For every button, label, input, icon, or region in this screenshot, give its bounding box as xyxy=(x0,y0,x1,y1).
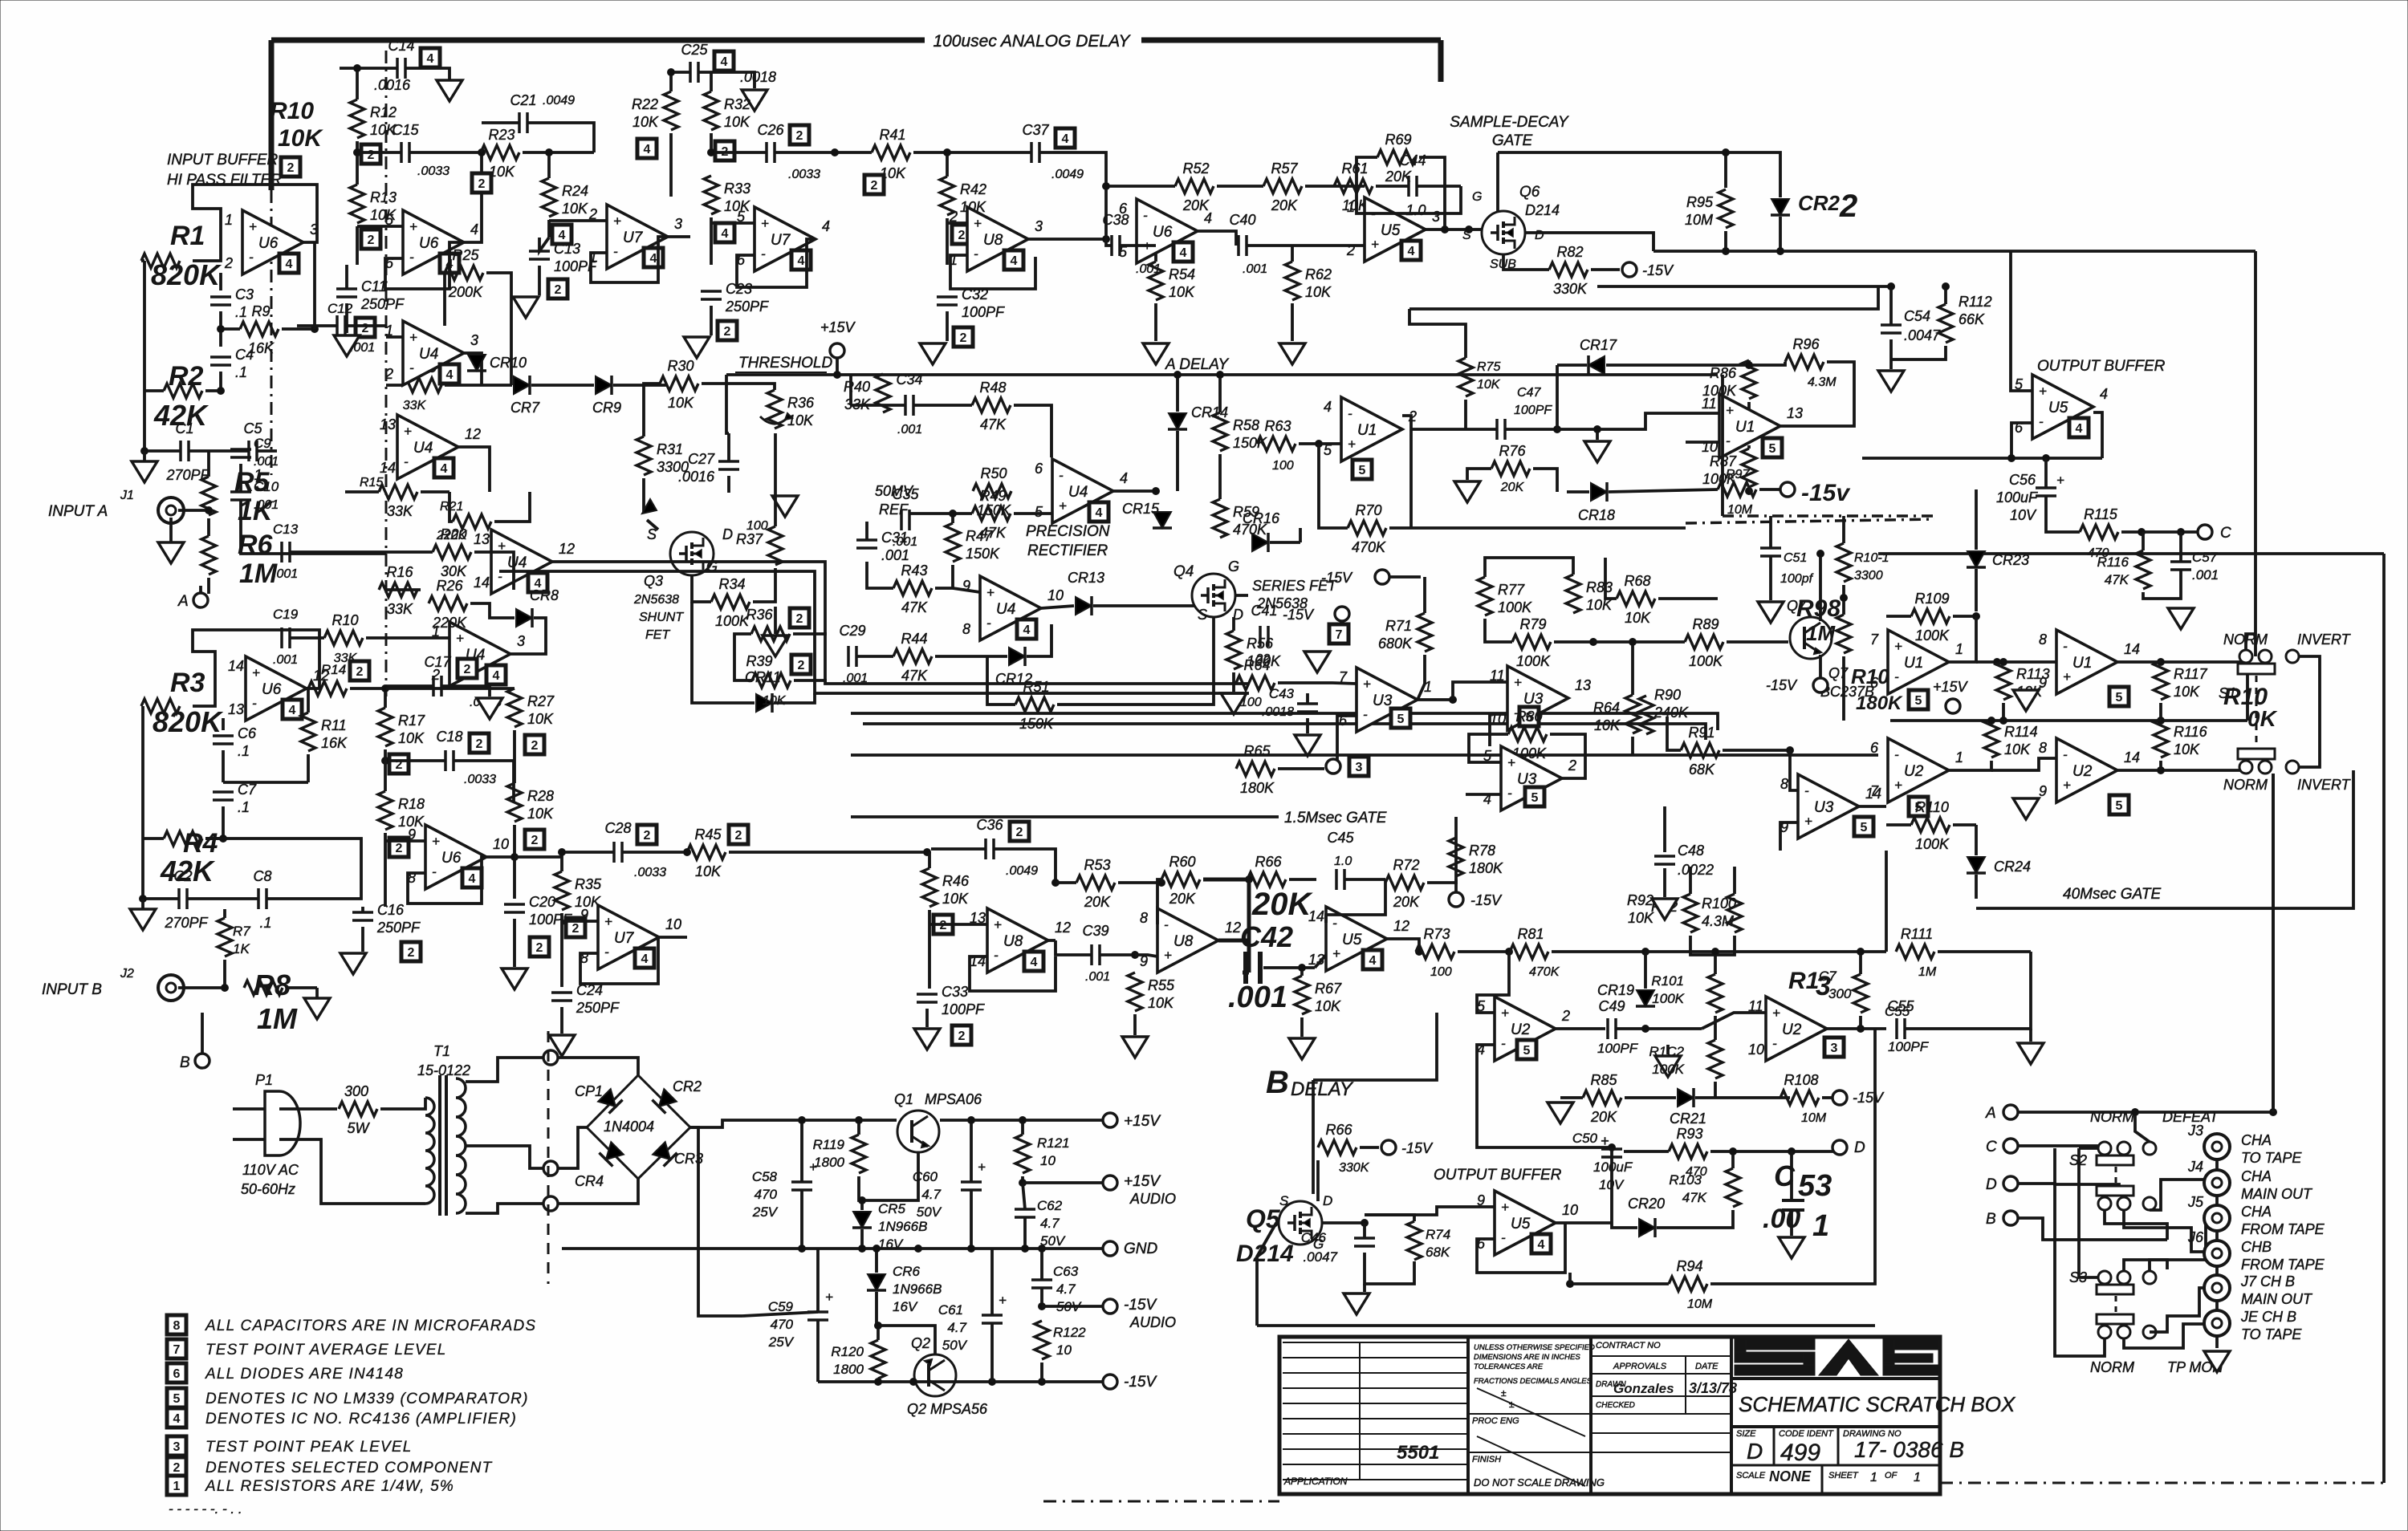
wire xyxy=(2135,1112,2150,1142)
resistor R113 xyxy=(1996,661,2011,700)
svg-text:270PF: 270PF xyxy=(164,915,208,931)
svg-text:C8: C8 xyxy=(253,868,271,884)
svg-text:D: D xyxy=(1323,1193,1332,1208)
svg-text:4.3M: 4.3M xyxy=(1702,913,1734,929)
resistor R82 xyxy=(1549,262,1588,277)
svg-text:C18: C18 xyxy=(436,729,462,745)
svg-text:47K: 47K xyxy=(901,599,928,615)
svg-text:.1: .1 xyxy=(259,915,271,931)
wire xyxy=(925,1009,929,1027)
svg-text:10K: 10K xyxy=(527,711,554,727)
wire xyxy=(513,919,516,967)
svg-text:C54: C54 xyxy=(1904,308,1930,324)
svg-text:4.7: 4.7 xyxy=(947,1320,966,1335)
capacitor C38 xyxy=(1112,235,1120,256)
svg-text:-15V: -15V xyxy=(1853,1090,1885,1106)
wire xyxy=(994,849,1056,883)
revision row xyxy=(1283,1387,1468,1389)
svg-text:DELAY: DELAY xyxy=(1291,1078,1354,1100)
wire xyxy=(1710,1029,1875,1284)
svg-text:GND: GND xyxy=(1124,1241,1158,1257)
svg-text:.001: .001 xyxy=(273,653,298,667)
node xyxy=(311,326,319,333)
svg-text:1: 1 xyxy=(1870,1471,1877,1484)
wire xyxy=(1048,939,1056,942)
svg-text:C39: C39 xyxy=(1082,923,1108,939)
test-point box 8 xyxy=(167,1315,186,1334)
svg-text:R65: R65 xyxy=(1243,743,1271,759)
svg-text:240K: 240K xyxy=(1653,705,1689,721)
svg-text:100PF: 100PF xyxy=(1888,1039,1930,1054)
svg-text:R64: R64 xyxy=(1243,657,1270,673)
wire xyxy=(1886,615,1911,618)
svg-text:+: + xyxy=(249,219,257,234)
svg-text:U7: U7 xyxy=(623,229,644,246)
resistor R13 xyxy=(350,185,364,223)
svg-text:R110: R110 xyxy=(1915,799,1949,815)
svg-text:2: 2 xyxy=(798,659,805,672)
resistor R111 xyxy=(1896,944,1934,959)
wire xyxy=(219,372,222,391)
svg-text:INPUT A: INPUT A xyxy=(48,503,108,520)
capacitor C19 xyxy=(282,627,290,648)
wire xyxy=(800,1120,803,1182)
resistor R15 xyxy=(379,485,417,499)
svg-text:C49: C49 xyxy=(1598,998,1625,1014)
resistor R62 xyxy=(1285,262,1300,300)
svg-text:5: 5 xyxy=(1861,821,1868,835)
wire xyxy=(836,358,839,375)
wire xyxy=(1570,1282,1669,1285)
test-point box 4 xyxy=(715,223,734,242)
svg-text:10K: 10K xyxy=(1169,284,1195,300)
svg-text:OF: OF xyxy=(1885,1471,1898,1480)
svg-text:300: 300 xyxy=(1828,986,1852,1001)
wire xyxy=(482,121,519,124)
svg-text:R17: R17 xyxy=(398,713,425,729)
svg-text:U2: U2 xyxy=(1904,763,1924,780)
wire xyxy=(297,324,337,327)
svg-text:CR5: CR5 xyxy=(878,1201,906,1216)
svg-text:CR19: CR19 xyxy=(1597,982,1634,998)
wire xyxy=(851,815,1279,818)
ground xyxy=(130,909,156,930)
svg-text:U2: U2 xyxy=(1782,1021,1802,1038)
wire xyxy=(141,899,144,909)
jack J1 input A xyxy=(158,497,184,523)
svg-text:100PF: 100PF xyxy=(1514,404,1552,417)
svg-text:OUTPUT BUFFER: OUTPUT BUFFER xyxy=(1434,1167,1562,1184)
wire xyxy=(1300,1017,1304,1037)
wire xyxy=(1014,405,1051,457)
wire xyxy=(205,837,223,840)
test-point box 2 xyxy=(470,733,489,753)
svg-text:C19: C19 xyxy=(273,607,299,622)
svg-text:C60: C60 xyxy=(913,1169,938,1184)
ground xyxy=(763,636,788,656)
svg-text:U1: U1 xyxy=(2072,655,2092,672)
terminal -15V xyxy=(1780,482,1795,497)
wire xyxy=(710,306,713,335)
resistor R53 xyxy=(1076,875,1115,890)
resistor R58 xyxy=(1213,412,1227,451)
wire xyxy=(386,687,515,690)
svg-text:INVERT: INVERT xyxy=(2297,777,2352,793)
wire xyxy=(558,1127,587,1168)
wire xyxy=(1360,1146,1379,1149)
svg-text:-: - xyxy=(1507,786,1512,801)
svg-text:1800: 1800 xyxy=(833,1362,864,1377)
svg-text:C: C xyxy=(2220,525,2231,542)
svg-text:DO NOT SCALE DRAWING: DO NOT SCALE DRAWING xyxy=(1474,1476,1605,1488)
wire xyxy=(1218,939,1249,943)
wire xyxy=(1039,152,1106,193)
resistor R48 xyxy=(972,398,1011,412)
svg-text:68K: 68K xyxy=(1426,1245,1450,1260)
svg-text:.00: .00 xyxy=(1763,1204,1800,1234)
terminal xyxy=(1832,1090,1847,1105)
svg-text:+: + xyxy=(1348,437,1356,452)
transistor Q6 xyxy=(1482,211,1525,254)
wire xyxy=(860,1200,864,1210)
svg-text:R40: R40 xyxy=(844,379,870,395)
resistor R14 xyxy=(308,681,347,696)
wire xyxy=(438,1075,441,1216)
switch S1 top section xyxy=(2239,650,2252,663)
svg-text:R76: R76 xyxy=(1499,443,1526,459)
svg-text:-: - xyxy=(2039,414,2044,429)
title v2 xyxy=(1837,1427,1840,1465)
ground xyxy=(920,343,946,364)
svg-text:R31: R31 xyxy=(657,441,683,457)
svg-text:250PF: 250PF xyxy=(376,920,421,936)
svg-text:CR6: CR6 xyxy=(893,1264,921,1279)
wire xyxy=(1243,971,1249,975)
svg-text:±: ± xyxy=(1501,1387,1507,1399)
capacitor C50 xyxy=(1601,1149,1622,1157)
wire xyxy=(1468,1413,1591,1415)
svg-text:2: 2 xyxy=(735,829,742,843)
wire xyxy=(940,1119,1103,1122)
svg-text:-: - xyxy=(994,948,999,963)
svg-text:+15V: +15V xyxy=(1124,1173,1161,1190)
svg-text:180K: 180K xyxy=(1240,780,1275,796)
wire xyxy=(1556,1221,1612,1224)
svg-text:+: + xyxy=(1501,1005,1509,1021)
svg-text:C27: C27 xyxy=(688,451,715,467)
op-amp U3 xyxy=(1780,774,1881,839)
svg-text:TOLERANCES ARE: TOLERANCES ARE xyxy=(1474,1362,1544,1371)
wire xyxy=(562,920,598,923)
wire xyxy=(1747,445,1751,449)
wire xyxy=(219,311,222,347)
wire xyxy=(1567,490,1589,493)
svg-text:.0049: .0049 xyxy=(1006,864,1038,878)
ground xyxy=(1279,343,1305,364)
svg-text:D: D xyxy=(1535,229,1544,242)
svg-text:R12: R12 xyxy=(370,104,397,120)
wire xyxy=(1389,526,1411,530)
svg-text:C4: C4 xyxy=(235,347,254,363)
wire xyxy=(405,68,449,80)
test-point box 4 xyxy=(714,51,734,71)
wire xyxy=(1593,640,1685,644)
svg-text:10K: 10K xyxy=(278,125,323,152)
diode CR7 xyxy=(514,376,530,395)
svg-text:R27: R27 xyxy=(527,693,555,709)
svg-text:220K: 220K xyxy=(432,615,467,631)
svg-text:3: 3 xyxy=(173,1440,181,1454)
resistor R23 xyxy=(481,145,519,160)
wire xyxy=(1644,952,1647,989)
revision row xyxy=(1283,1403,1468,1404)
svg-text:U6: U6 xyxy=(262,681,282,698)
revision row xyxy=(1283,1464,1468,1465)
resistor R18 xyxy=(378,791,393,830)
wire xyxy=(1299,528,1302,542)
svg-text:C9: C9 xyxy=(254,436,271,451)
wire xyxy=(928,852,931,868)
diode CR22 xyxy=(1771,199,1790,215)
svg-text:6: 6 xyxy=(173,1367,181,1381)
svg-text:C: C xyxy=(1986,1139,1997,1155)
svg-text:4: 4 xyxy=(470,221,478,238)
svg-text:R13: R13 xyxy=(370,189,397,205)
svg-text:R80: R80 xyxy=(1515,709,1542,725)
wire xyxy=(1218,375,1222,412)
wire xyxy=(539,238,549,251)
svg-text:4: 4 xyxy=(427,52,434,66)
svg-text:4: 4 xyxy=(173,1412,181,1426)
wire xyxy=(881,374,885,375)
svg-text:10K: 10K xyxy=(787,412,814,428)
wire xyxy=(1218,454,1222,499)
wire xyxy=(2055,1148,2105,1356)
wire xyxy=(2246,634,2255,650)
svg-text:U5: U5 xyxy=(2048,400,2068,416)
svg-text:C63: C63 xyxy=(1053,1264,1079,1279)
test-point box 2 xyxy=(361,144,380,164)
wire xyxy=(1468,1452,1591,1453)
svg-text:100K: 100K xyxy=(1498,599,1532,615)
svg-text:47K: 47K xyxy=(2105,572,2129,587)
svg-text:R101: R101 xyxy=(1651,973,1684,989)
wire xyxy=(647,520,658,530)
title line under logo xyxy=(1731,1377,1940,1380)
svg-text:Q5: Q5 xyxy=(1246,1204,1281,1233)
svg-text:R53: R53 xyxy=(1084,857,1110,873)
test-point box 5 xyxy=(1519,707,1539,726)
resistor R20 xyxy=(433,545,471,559)
svg-text:14: 14 xyxy=(228,658,244,674)
svg-text:.0016: .0016 xyxy=(374,77,411,93)
svg-text:CR15: CR15 xyxy=(1122,501,1160,517)
terminal B xyxy=(195,1054,209,1068)
ground arrow xyxy=(642,499,657,514)
wire xyxy=(1940,1482,2384,1484)
svg-text:R71: R71 xyxy=(1385,618,1412,634)
svg-text:U2: U2 xyxy=(1511,1021,1531,1038)
svg-text:1: 1 xyxy=(225,212,233,228)
svg-text:.001: .001 xyxy=(273,567,298,581)
wire xyxy=(144,389,164,392)
svg-text:4.7: 4.7 xyxy=(1040,1216,1060,1231)
svg-text:+: + xyxy=(1894,639,1902,654)
test-point box 2 xyxy=(548,279,567,298)
svg-text:470: 470 xyxy=(755,1187,778,1202)
resistor R117 xyxy=(2154,661,2168,700)
svg-text:100PF: 100PF xyxy=(962,304,1005,320)
wire xyxy=(774,607,777,634)
ground xyxy=(772,496,798,517)
wire to U6 + xyxy=(357,225,403,228)
resistor R1 zigzag xyxy=(141,254,180,268)
svg-text:CR4: CR4 xyxy=(575,1173,604,1189)
wire xyxy=(1842,516,1845,543)
svg-text:U5: U5 xyxy=(1342,932,1362,948)
wire neg xyxy=(690,1127,742,1316)
svg-text:10K: 10K xyxy=(2004,741,2031,757)
svg-text:-15V: -15V xyxy=(1124,1374,1157,1391)
svg-text:U7: U7 xyxy=(614,930,635,947)
wire xyxy=(851,404,905,407)
capacitor C41 xyxy=(1260,626,1268,647)
svg-text:Q2 MPSA56: Q2 MPSA56 xyxy=(907,1401,988,1417)
svg-text:+: + xyxy=(2039,384,2047,399)
test-point box 5 xyxy=(1525,787,1544,806)
svg-text:C24: C24 xyxy=(576,982,603,998)
capacitor C11 xyxy=(336,289,357,297)
resistor R47 xyxy=(946,523,960,562)
terminal xyxy=(1326,759,1340,774)
svg-text:R16: R16 xyxy=(386,564,413,580)
wire xyxy=(2117,769,2247,772)
wire xyxy=(1021,1176,1024,1183)
svg-text:R52: R52 xyxy=(1182,160,1209,177)
test-point box 2 xyxy=(530,937,549,956)
wire secondary top xyxy=(466,1058,548,1082)
wire xyxy=(1466,793,1501,796)
op-amp U4 xyxy=(380,415,481,479)
wire xyxy=(710,133,713,152)
svg-text:J2: J2 xyxy=(120,967,134,981)
svg-text:8: 8 xyxy=(2039,740,2047,756)
wire xyxy=(558,1179,638,1204)
wire xyxy=(1723,749,1790,752)
svg-text:R9: R9 xyxy=(251,303,270,319)
svg-text:C14: C14 xyxy=(388,38,414,54)
wire xyxy=(1645,950,1886,953)
jack J3 xyxy=(2204,1134,2230,1159)
wire xyxy=(1780,362,1854,426)
svg-text:C56: C56 xyxy=(2009,472,2036,488)
wire xyxy=(286,986,317,989)
svg-text:+: + xyxy=(1894,778,1902,793)
wire xyxy=(1137,244,1156,247)
revision row xyxy=(1283,1418,1468,1419)
wire xyxy=(1631,737,1634,755)
wire xyxy=(1232,617,1235,631)
resistor R75 xyxy=(1458,358,1473,396)
wire xyxy=(710,72,713,91)
svg-text:R36: R36 xyxy=(787,395,815,411)
resistor R16 xyxy=(379,583,417,597)
wire xyxy=(1710,1150,1838,1153)
wire U8 feedback xyxy=(950,255,1035,289)
resistor R30 xyxy=(660,376,698,391)
svg-text:2: 2 xyxy=(408,946,415,960)
wire xyxy=(205,389,221,392)
svg-text:CR7: CR7 xyxy=(510,400,540,416)
svg-text:INPUT B: INPUT B xyxy=(42,981,102,998)
wire xyxy=(671,71,690,74)
wire xyxy=(207,518,210,536)
wire xyxy=(742,1312,818,1316)
svg-text:33K: 33K xyxy=(387,503,413,519)
transistor Q5 xyxy=(1279,1201,1322,1245)
wire xyxy=(1365,1215,1414,1221)
svg-text:R109: R109 xyxy=(1914,591,1949,607)
wire xyxy=(1667,717,1681,750)
wire xyxy=(445,384,512,387)
test-point box 4 xyxy=(637,139,657,158)
svg-text:4: 4 xyxy=(721,55,728,69)
svg-text:13: 13 xyxy=(228,701,244,717)
svg-text:1M: 1M xyxy=(1918,965,1937,979)
op-amp U5 xyxy=(1477,1191,1578,1255)
svg-text:+: + xyxy=(1772,1005,1780,1021)
wire xyxy=(1976,770,2353,908)
svg-text:C43: C43 xyxy=(1269,686,1295,701)
resistor R46 xyxy=(922,868,937,907)
wire xyxy=(1819,554,1822,621)
wire xyxy=(1591,1452,1731,1453)
wire xyxy=(2382,554,2386,1483)
capacitor C46 xyxy=(1354,1238,1375,1246)
svg-text:SHUNT: SHUNT xyxy=(639,611,684,624)
svg-text:4: 4 xyxy=(1204,210,1212,226)
svg-text:MAIN OUT: MAIN OUT xyxy=(2241,1186,2313,1202)
svg-text:.001: .001 xyxy=(350,341,375,355)
svg-text:FRACTIONS DECIMALS ANGLES: FRACTIONS DECIMALS ANGLES xyxy=(1474,1377,1592,1386)
svg-text:-: - xyxy=(1894,747,1899,762)
svg-text:DENOTES IC NO LM339 (COMPARAT: DENOTES IC NO LM339 (COMPARATOR) xyxy=(205,1391,529,1407)
wire xyxy=(1023,1181,1103,1184)
svg-text:CONTRACT NO: CONTRACT NO xyxy=(1596,1341,1661,1350)
wire xyxy=(2159,761,2162,770)
wire xyxy=(1160,879,1163,883)
svg-text:R66: R66 xyxy=(1255,854,1282,870)
wire xyxy=(644,384,660,437)
svg-text:+: + xyxy=(986,585,995,600)
svg-text:4: 4 xyxy=(1538,1238,1545,1252)
wire xyxy=(1790,1151,1793,1199)
svg-text:-: - xyxy=(613,244,618,259)
wire xyxy=(385,839,425,843)
svg-text:10: 10 xyxy=(1748,1042,1764,1058)
wire xyxy=(205,839,361,899)
transistor Q4 xyxy=(1192,574,1235,617)
wire gate to R95 xyxy=(1498,152,1726,188)
svg-text:4.3M: 4.3M xyxy=(1808,376,1837,389)
svg-text:10: 10 xyxy=(493,836,509,852)
capacitor C18 xyxy=(445,750,454,771)
svg-text:Q3: Q3 xyxy=(644,573,663,589)
svg-text:250PF: 250PF xyxy=(576,1000,620,1016)
wire xyxy=(1316,1160,1320,1201)
jack J7 xyxy=(2204,1275,2230,1301)
op-amp U2 xyxy=(1870,738,1963,802)
